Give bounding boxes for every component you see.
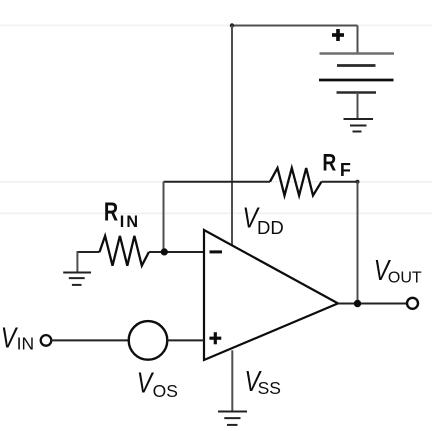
svg-text:DD: DD (257, 217, 284, 238)
wire feedback horizontal right segment (322, 181, 358, 183)
source VOS circle (129, 321, 168, 360)
ground (RIN) (63, 273, 91, 285)
wire top rail horizontal (232, 25, 358, 27)
svg-text:IN: IN (120, 212, 140, 231)
label VIN (1, 321, 19, 354)
node corner dot top-left (230, 23, 234, 27)
wire feedback vertical right (down to output node) (357, 182, 359, 304)
wire RIN left segment (77, 251, 99, 253)
op-amp plus input symbol (209, 332, 221, 344)
svg-text:OUT: OUT (388, 270, 422, 287)
wire VSS vertical to ground (231, 350, 233, 411)
wire feedback horizontal left segment (164, 181, 271, 183)
battery B1 plates (319, 54, 394, 93)
label RF (322, 149, 336, 177)
svg-text:SS: SS (258, 378, 281, 398)
node corner RF right (356, 180, 360, 184)
svg-text:F: F (340, 160, 351, 180)
svg-text:IN: IN (17, 334, 34, 354)
wire feedback vertical left (down to inverting node) (163, 182, 165, 252)
op-amp minus input symbol (210, 250, 223, 253)
wire RIN right segment to node (149, 251, 204, 253)
svg-text:R: R (104, 197, 119, 226)
ground (VSS) (218, 412, 247, 425)
wire output horizontal (338, 303, 407, 305)
wire VDD vertical (top rail down to op-amp top edge) (231, 26, 233, 246)
label VSS (245, 364, 263, 397)
svg-text:R: R (322, 149, 336, 177)
label VOS (137, 366, 155, 399)
battery plus sign (332, 29, 344, 41)
node inverting input junction (161, 248, 168, 255)
ground (battery) (344, 119, 374, 132)
wire VIN to VOS source (51, 339, 129, 341)
terminal VIN open circle (41, 335, 52, 346)
resistor RF (270, 168, 322, 196)
wire battery negative to ground (357, 93, 359, 120)
label VOUT (374, 254, 392, 287)
wire RIN ground stub (76, 251, 78, 273)
wire battery positive vertical (357, 26, 359, 54)
svg-text:OS: OS (153, 381, 178, 401)
terminal VOUT open circle (407, 298, 418, 309)
label VDD (243, 201, 261, 234)
label RIN (104, 197, 119, 226)
wire VOS to op-amp plus input (167, 339, 204, 341)
op-amp U1 triangle (204, 230, 338, 360)
resistor RIN (100, 236, 149, 266)
node output junction (354, 300, 361, 307)
